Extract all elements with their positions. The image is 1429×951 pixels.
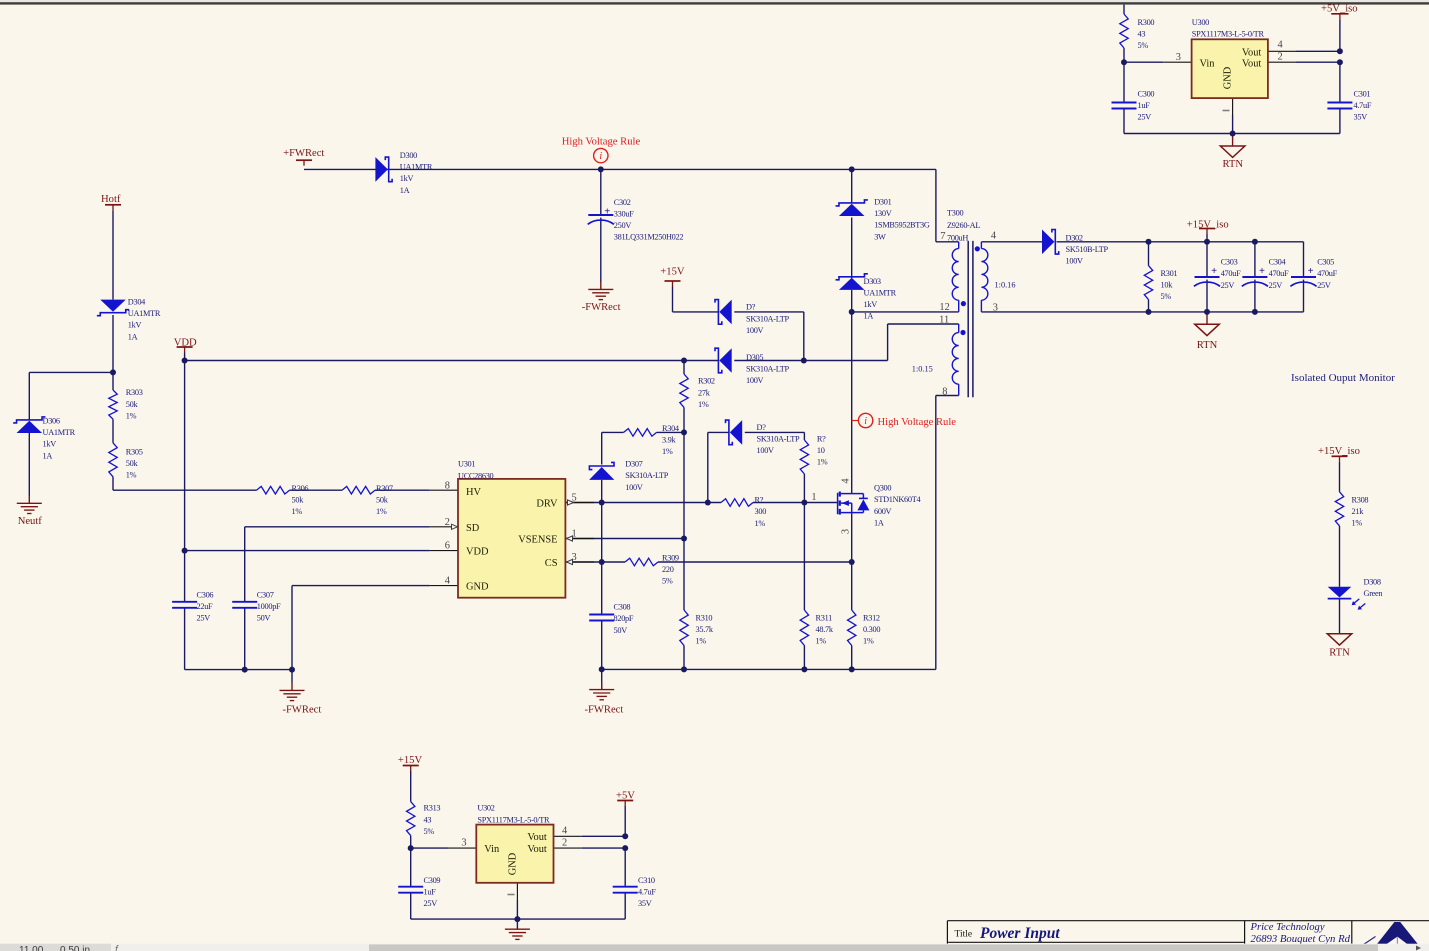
svg-text:4: 4	[445, 575, 451, 586]
svg-text:4.7uF: 4.7uF	[1354, 101, 1372, 110]
svg-text:1%: 1%	[817, 458, 828, 467]
svg-text:Hotf: Hotf	[101, 194, 121, 205]
svg-text:1%: 1%	[376, 507, 387, 516]
svg-text:C307: C307	[257, 590, 274, 599]
svg-text:T300: T300	[947, 209, 963, 218]
svg-text:43: 43	[1138, 30, 1146, 39]
svg-text:GND: GND	[466, 582, 489, 593]
svg-text:1: 1	[572, 528, 577, 539]
svg-text:35.7k: 35.7k	[696, 625, 714, 634]
svg-text:D308: D308	[1364, 578, 1381, 587]
svg-text:35V: 35V	[638, 899, 652, 908]
svg-text:VSENSE: VSENSE	[518, 535, 557, 546]
svg-text:SK310A-LTP: SK310A-LTP	[746, 314, 789, 323]
svg-text:4.7uF: 4.7uF	[638, 888, 656, 897]
svg-text:C305: C305	[1317, 258, 1334, 267]
svg-text:2: 2	[445, 517, 450, 528]
svg-text:C303: C303	[1221, 258, 1238, 267]
svg-text:1A: 1A	[128, 332, 138, 341]
svg-text:381LQ331M250H022: 381LQ331M250H022	[614, 233, 684, 242]
svg-text:Z9260-AL: Z9260-AL	[947, 221, 980, 230]
svg-text:820pF: 820pF	[614, 614, 634, 623]
svg-text:High Voltage Rule: High Voltage Rule	[562, 137, 641, 148]
svg-text:+15V_iso: +15V_iso	[1187, 219, 1229, 230]
svg-text:1%: 1%	[696, 637, 707, 646]
svg-text:+5V_iso: +5V_iso	[1321, 4, 1358, 15]
svg-text:+: +	[604, 206, 610, 217]
svg-text:D305: D305	[746, 353, 763, 362]
svg-text:3: 3	[841, 529, 852, 534]
svg-text:35V: 35V	[1354, 113, 1368, 122]
svg-text:CS: CS	[545, 558, 558, 569]
svg-text:R307: R307	[376, 484, 393, 493]
svg-text:R306: R306	[292, 484, 309, 493]
svg-text:Vout: Vout	[1242, 47, 1262, 58]
svg-text:4: 4	[991, 230, 997, 241]
svg-text:-FWRect: -FWRect	[283, 705, 322, 716]
svg-text:25V: 25V	[1221, 281, 1235, 290]
svg-text:R309: R309	[662, 554, 679, 563]
svg-text:5%: 5%	[1138, 41, 1149, 50]
svg-text:C301: C301	[1354, 90, 1371, 99]
svg-text:C300: C300	[1138, 90, 1155, 99]
svg-text:SPX1117M3-L-5-0/TR: SPX1117M3-L-5-0/TR	[1192, 30, 1265, 39]
svg-text:1:0.16: 1:0.16	[995, 281, 1016, 290]
svg-text:R?: R?	[817, 435, 826, 444]
svg-text:6: 6	[445, 540, 450, 551]
svg-text:10k: 10k	[1161, 281, 1174, 290]
svg-text:R313: R313	[424, 804, 441, 813]
svg-text:3: 3	[1176, 52, 1181, 63]
svg-text:43: 43	[424, 815, 432, 824]
svg-text:0.300: 0.300	[863, 625, 880, 634]
svg-text:R312: R312	[863, 613, 880, 622]
svg-text:470uF: 470uF	[1269, 269, 1289, 278]
svg-text:SK310A-LTP: SK310A-LTP	[746, 365, 789, 374]
svg-text:3.9k: 3.9k	[662, 436, 676, 445]
svg-text:5%: 5%	[424, 827, 435, 836]
svg-text:+FWRect: +FWRect	[283, 148, 324, 159]
svg-text:50k: 50k	[126, 459, 139, 468]
svg-text:220: 220	[662, 565, 674, 574]
svg-text:1SMB5952BT3G: 1SMB5952BT3G	[874, 221, 930, 230]
svg-text:RTN: RTN	[1197, 340, 1218, 351]
svg-text:1A: 1A	[864, 312, 874, 321]
svg-text:25V: 25V	[1269, 281, 1283, 290]
svg-text:470uF: 470uF	[1221, 269, 1241, 278]
svg-text:1kV: 1kV	[128, 321, 142, 330]
svg-text:5%: 5%	[662, 577, 673, 586]
svg-text:C310: C310	[638, 876, 655, 885]
svg-text:21k: 21k	[1352, 507, 1365, 516]
svg-text:4: 4	[1278, 40, 1284, 51]
svg-text:C304: C304	[1269, 258, 1287, 267]
svg-text:Title: Title	[955, 930, 973, 940]
svg-text:+15V_iso: +15V_iso	[1318, 446, 1360, 457]
svg-text:R303: R303	[126, 388, 143, 397]
svg-text:1%: 1%	[816, 637, 827, 646]
svg-text:11.00: 11.00	[19, 945, 44, 951]
svg-text:R302: R302	[698, 377, 715, 386]
svg-text:7: 7	[940, 231, 945, 242]
svg-text:1A: 1A	[874, 518, 884, 527]
svg-text:330uF: 330uF	[614, 209, 634, 218]
svg-text:SK310A-LTP: SK310A-LTP	[625, 471, 668, 480]
svg-text:300: 300	[755, 507, 767, 516]
svg-text:50k: 50k	[126, 400, 139, 409]
svg-text:100V: 100V	[1066, 257, 1084, 266]
svg-text:470uF: 470uF	[1317, 269, 1337, 278]
svg-text:Vin: Vin	[484, 844, 500, 855]
svg-text:RTN: RTN	[1329, 648, 1350, 659]
svg-text:1A: 1A	[400, 186, 410, 195]
svg-text:5%: 5%	[1161, 292, 1172, 301]
svg-text:250V: 250V	[614, 221, 632, 230]
svg-text:1kV: 1kV	[864, 300, 878, 309]
svg-text:Q300: Q300	[874, 484, 891, 493]
svg-text:22uF: 22uF	[197, 602, 214, 611]
svg-text:600V: 600V	[874, 507, 892, 516]
svg-text:100V: 100V	[746, 326, 764, 335]
svg-text:R300: R300	[1138, 18, 1155, 27]
svg-text:R301: R301	[1161, 269, 1178, 278]
svg-text:-FWRect: -FWRect	[582, 302, 621, 313]
svg-text:50k: 50k	[376, 496, 389, 505]
svg-text:High Voltage Rule: High Voltage Rule	[878, 417, 957, 428]
svg-text:SPX1117M3-L-5-0/TR: SPX1117M3-L-5-0/TR	[477, 815, 550, 824]
svg-text:27k: 27k	[698, 388, 711, 397]
svg-text:1A: 1A	[43, 451, 53, 460]
svg-text:50V: 50V	[257, 614, 271, 623]
svg-text:1:0.15: 1:0.15	[912, 365, 933, 374]
svg-text:SK510B-LTP: SK510B-LTP	[1066, 245, 1109, 254]
svg-text:+: +	[1259, 266, 1265, 277]
svg-text:25V: 25V	[1317, 281, 1331, 290]
svg-text:SK310A-LTP: SK310A-LTP	[757, 435, 800, 444]
svg-text:Vout: Vout	[1242, 58, 1262, 69]
svg-text:3: 3	[572, 552, 577, 563]
svg-text:10: 10	[817, 446, 825, 455]
svg-text:R304: R304	[662, 424, 680, 433]
svg-text:25V: 25V	[424, 899, 438, 908]
svg-text:C308: C308	[614, 603, 631, 612]
svg-text:1%: 1%	[662, 447, 673, 456]
svg-text:8: 8	[942, 386, 947, 397]
svg-text:2: 2	[562, 838, 567, 849]
svg-text:UA1MTR: UA1MTR	[128, 309, 161, 318]
svg-text:8: 8	[445, 481, 450, 492]
svg-text:i: i	[599, 151, 602, 162]
svg-text:D306: D306	[43, 417, 60, 426]
svg-text:D?: D?	[746, 303, 756, 312]
svg-text:D?: D?	[757, 423, 767, 432]
svg-text:1%: 1%	[698, 400, 709, 409]
svg-text:1kV: 1kV	[43, 440, 57, 449]
svg-text:1%: 1%	[126, 471, 137, 480]
svg-text:+5V: +5V	[616, 791, 635, 802]
svg-text:Isolated Ouput Monitor: Isolated Ouput Monitor	[1291, 372, 1395, 384]
svg-text:11: 11	[939, 314, 949, 325]
svg-text:3: 3	[461, 838, 466, 849]
svg-text:D304: D304	[128, 298, 146, 307]
svg-text:1000pF: 1000pF	[257, 602, 281, 611]
svg-text:5: 5	[572, 492, 577, 503]
svg-text:GND: GND	[1223, 66, 1234, 89]
svg-text:Power Input: Power Input	[980, 925, 1060, 942]
svg-text:130V: 130V	[874, 209, 892, 218]
svg-text:26893 Bouquet Cyn Rd: 26893 Bouquet Cyn Rd	[1251, 933, 1351, 945]
svg-text:+: +	[1211, 266, 1217, 277]
svg-text:12: 12	[939, 302, 949, 313]
svg-text:GND: GND	[508, 852, 519, 875]
svg-text:4: 4	[841, 478, 852, 484]
svg-text:1%: 1%	[126, 411, 137, 420]
svg-text:D307: D307	[625, 460, 642, 469]
svg-text:RTN: RTN	[1223, 159, 1244, 170]
svg-text:100V: 100V	[757, 446, 775, 455]
svg-text:50V: 50V	[614, 626, 628, 635]
svg-text:Neutf: Neutf	[18, 516, 43, 527]
svg-text:UA1MTR: UA1MTR	[400, 163, 433, 172]
svg-text:2: 2	[1278, 51, 1283, 62]
svg-text:25V: 25V	[1138, 113, 1152, 122]
svg-text:1uF: 1uF	[1138, 101, 1151, 110]
svg-text:UCC28630: UCC28630	[458, 471, 494, 480]
svg-text:+15V: +15V	[660, 267, 685, 278]
svg-text:VDD: VDD	[174, 337, 197, 348]
svg-text:50k: 50k	[292, 496, 305, 505]
svg-text:0.50 in: 0.50 in	[60, 945, 90, 951]
svg-text:100V: 100V	[746, 376, 764, 385]
svg-text:C302: C302	[614, 198, 631, 207]
svg-text:D302: D302	[1066, 233, 1083, 242]
svg-text:DRV: DRV	[536, 499, 558, 510]
svg-text:700uH: 700uH	[947, 233, 968, 242]
svg-text:D301: D301	[874, 198, 891, 207]
svg-text:R305: R305	[126, 447, 143, 456]
svg-text:-FWRect: -FWRect	[585, 705, 624, 716]
svg-text:100V: 100V	[625, 483, 643, 492]
svg-text:R308: R308	[1352, 495, 1369, 504]
svg-text:R311: R311	[816, 613, 833, 622]
svg-text:U301: U301	[458, 460, 475, 469]
svg-text:D300: D300	[400, 151, 417, 160]
svg-text:C306: C306	[197, 590, 214, 599]
svg-text:SD: SD	[466, 523, 480, 534]
svg-text:4: 4	[562, 826, 568, 837]
svg-text:+15V: +15V	[398, 755, 423, 766]
svg-text:D303: D303	[864, 277, 881, 286]
svg-text:+: +	[1308, 266, 1314, 277]
svg-text:Vin: Vin	[1200, 58, 1216, 69]
svg-text:HV: HV	[466, 487, 482, 498]
svg-text:R?: R?	[755, 496, 764, 505]
svg-text:1%: 1%	[755, 519, 766, 528]
svg-text:U302: U302	[477, 804, 494, 813]
svg-text:1%: 1%	[863, 637, 874, 646]
svg-text:3: 3	[993, 302, 998, 313]
svg-text:Vout: Vout	[527, 832, 547, 843]
svg-text:Price Technology: Price Technology	[1250, 922, 1325, 933]
svg-text:1%: 1%	[292, 507, 303, 516]
svg-text:Green: Green	[1364, 589, 1384, 598]
svg-text:Vout: Vout	[527, 844, 547, 855]
svg-text:VDD: VDD	[466, 547, 489, 558]
svg-text:3W: 3W	[874, 232, 886, 241]
svg-text:48.7k: 48.7k	[816, 625, 834, 634]
svg-text:1kV: 1kV	[400, 174, 414, 183]
svg-text:STD1NK60T4: STD1NK60T4	[874, 495, 921, 504]
svg-text:U300: U300	[1192, 18, 1209, 27]
svg-text:i: i	[864, 416, 867, 427]
svg-text:25V: 25V	[197, 614, 211, 623]
svg-text:UA1MTR: UA1MTR	[864, 288, 897, 297]
svg-text:UA1MTR: UA1MTR	[43, 428, 76, 437]
svg-text:1: 1	[811, 492, 816, 503]
svg-text:C309: C309	[424, 876, 441, 885]
svg-text:1uF: 1uF	[424, 888, 437, 897]
svg-text:R310: R310	[696, 613, 713, 622]
svg-text:1%: 1%	[1352, 519, 1363, 528]
